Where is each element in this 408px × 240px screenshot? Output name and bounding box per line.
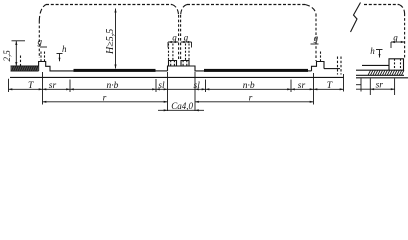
extension line sr detail right [394, 78, 396, 95]
dim g joint right terminal [191, 42, 193, 48]
svg-text:r: r [249, 94, 253, 104]
right support top edge main view [324, 68, 340, 70]
arrowheads [9, 9, 405, 112]
right detail bottom structure line [356, 77, 408, 79]
right detail support hatching [368, 70, 404, 75]
dim row3 Ca line [158, 109, 204, 111]
svg-text:g: g [172, 32, 177, 42]
svg-text:g: g [38, 36, 43, 46]
arrow T1 right [39, 88, 43, 90]
extension line sr1 left [42, 72, 44, 105]
svg-text:sr: sr [298, 81, 306, 91]
extension line T2 right [343, 74, 345, 92]
svg-text:H≥5,5: H≥5,5 [105, 29, 116, 55]
dim g joint left terminal [167, 42, 169, 48]
joint hidden edge left [178, 15, 180, 61]
left support hidden edge [20, 56, 22, 67]
dim h left line [59, 54, 61, 62]
svg-text:sl: sl [194, 81, 201, 91]
dim g joint right line [181, 41, 192, 43]
dim g detail line [391, 41, 405, 43]
svg-text:T: T [327, 81, 333, 91]
arrow sl1 left [156, 88, 160, 90]
arrow H top [114, 9, 116, 13]
svg-text:h: h [370, 46, 375, 56]
extension line detail edge [360, 78, 362, 91]
arrow sr detail right [391, 88, 395, 90]
right detail panel top dashed [364, 4, 399, 6]
right detail support bottom edge [356, 74, 404, 76]
arrow 2.5 top [15, 41, 17, 45]
svg-text:n·b: n·b [107, 81, 119, 91]
extension line joint right [194, 72, 196, 111]
arrow g1 left [168, 41, 172, 43]
panel P1 left end hidden edges [40, 52, 42, 62]
extension line sr detail left [369, 78, 371, 95]
arrow T2 left [314, 88, 318, 90]
dim 2.5 extension tick [12, 40, 26, 42]
panel P2 top-right corner arc [305, 5, 316, 15]
joint hidden edge right [180, 15, 182, 61]
dim sr detail line tail [356, 84, 361, 86]
hidden edges near break [337, 57, 339, 75]
svg-text:2,5: 2,5 [2, 50, 12, 62]
arrow nb2 right [287, 88, 291, 90]
panel P2 top edge dashed [187, 4, 305, 6]
dim row2 line left [43, 101, 168, 103]
dim row1 line [9, 88, 344, 90]
arrow Ca right outside [195, 109, 199, 111]
svg-text:sl: sl [158, 81, 165, 91]
panel P2 top-left corner arc [181, 5, 187, 16]
dim h left tick [57, 53, 63, 55]
arrow r2 left [195, 101, 199, 103]
joint block left hidden edges [170, 61, 172, 67]
arrow sr1 left [43, 88, 47, 90]
arrow sr2 left [291, 88, 295, 90]
joint block right [181, 61, 189, 67]
dim 2.5 line [15, 41, 17, 66]
arrow nb1 left [70, 88, 74, 90]
arrow sl2 right [202, 88, 206, 90]
extension line sl1 left [155, 79, 157, 92]
panel P1 left edge dashed [38, 21, 40, 58]
extension line T1 left [8, 79, 10, 92]
arrow g detail right [401, 41, 405, 43]
extension line nb2 right [290, 80, 292, 93]
svg-text:r: r [103, 94, 107, 104]
panel P2 right end step profile [312, 62, 325, 71]
arrow r1 right [164, 101, 168, 103]
right detail right edge dashed [404, 14, 406, 59]
extension line sl2 right [205, 80, 207, 93]
svg-text:g: g [184, 32, 189, 42]
extension line joint left [167, 72, 169, 111]
dim h detail tick [376, 49, 383, 51]
panel P2 slab section bar [204, 69, 308, 72]
joint block left [169, 61, 177, 67]
arrow H bottom [114, 65, 116, 69]
arrow 2.5 bottom [15, 62, 17, 66]
extension line sr2 right [313, 73, 315, 105]
right detail block [389, 59, 404, 70]
panel P1 slab section bar [74, 69, 156, 72]
arrow Ca left outside [164, 109, 168, 111]
arrow sl1 right [164, 88, 168, 90]
left support hatching [12, 66, 38, 71]
svg-text:sr: sr [376, 81, 384, 91]
arrow g2 left [181, 41, 185, 43]
dim row2 line right [195, 101, 314, 103]
arrow r1 left [43, 101, 47, 103]
panel P2 right end hidden edge [320, 52, 322, 62]
arrow sr1 right [66, 88, 70, 90]
arrow sl2 left [195, 88, 199, 90]
arrow nb1 right [152, 88, 156, 90]
panel P1 top edge dashed [46, 4, 172, 6]
left support fill [11, 66, 39, 70]
break line zigzag [351, 3, 361, 33]
arrow h left end [59, 58, 61, 62]
svg-text:T: T [28, 81, 34, 91]
dim g detail terminal [390, 42, 392, 48]
svg-text:sr: sr [49, 81, 57, 91]
arrow T2 right [340, 88, 344, 90]
arrow r2 right [310, 101, 314, 103]
arrow sr detail left [370, 88, 374, 90]
svg-text:n·b: n·b [243, 81, 255, 91]
right detail top-right corner arc [399, 5, 405, 14]
right detail block hidden edges [394, 59, 396, 70]
svg-text:g: g [393, 32, 398, 42]
bottom structure line [10, 76, 344, 78]
right detail support top edge [356, 69, 404, 71]
right detail seat line [362, 64, 389, 66]
arrow nb2 left [206, 88, 210, 90]
panel P2 underside right of bar [308, 70, 312, 72]
left support top edge [11, 65, 39, 67]
left support bottom edge [11, 70, 39, 72]
arrow sr2 right [310, 88, 314, 90]
svg-text:g: g [314, 33, 319, 43]
arrow T1 left [9, 88, 13, 90]
dim sr detail line [356, 88, 395, 90]
svg-text:Ca4,0: Ca4,0 [171, 101, 193, 111]
panel P1 underside right of bar [156, 70, 168, 72]
dim g joint left line [168, 41, 178, 43]
joint block right hidden edges [182, 61, 184, 67]
dim g left-end tick [40, 46, 47, 48]
panel P2 right edge dashed [315, 14, 317, 61]
joint seat platform [168, 66, 205, 71]
svg-text:h: h [62, 44, 67, 54]
panel P1 top-right corner arc [172, 5, 179, 16]
arrow h detail [379, 54, 381, 58]
arrow g1 right [175, 41, 179, 43]
panel P1 top-left corner arc [39, 5, 46, 22]
dim h detail line [379, 50, 381, 58]
dim H line [115, 9, 117, 69]
dim g right-end tick [311, 43, 319, 45]
arrow g detail left [391, 41, 395, 43]
panel P1 left end step profile [39, 62, 74, 72]
extension line nb1 left [69, 80, 71, 93]
joint hidden extension drops [168, 44, 170, 61]
arrow g2 right [188, 41, 192, 43]
